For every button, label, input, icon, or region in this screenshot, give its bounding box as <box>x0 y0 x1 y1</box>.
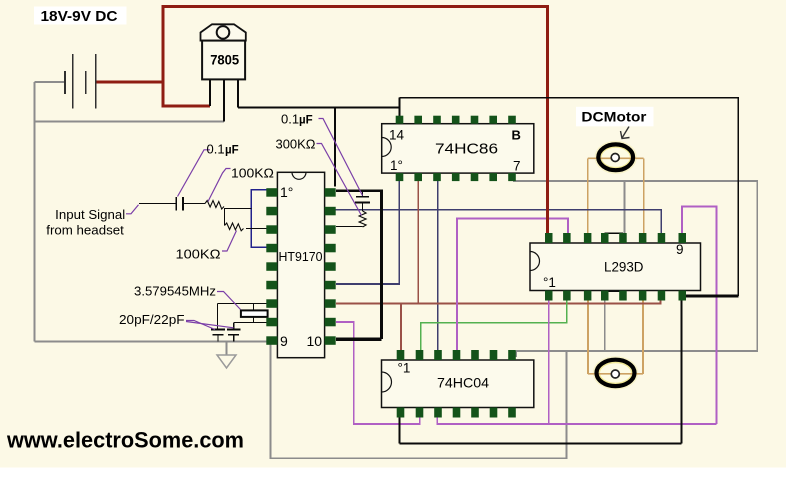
svg-text:7805: 7805 <box>210 52 239 68</box>
svg-text:www.electroSome.com: www.electroSome.com <box>6 428 244 453</box>
svg-text:from headset: from headset <box>46 223 124 237</box>
svg-text:HT9170: HT9170 <box>279 250 323 264</box>
svg-text:µF: µF <box>299 115 313 127</box>
svg-text:100KΩ: 100KΩ <box>231 165 274 180</box>
svg-text:74HC86: 74HC86 <box>435 142 498 158</box>
svg-text:°1: °1 <box>398 361 411 376</box>
svg-text:L293D: L293D <box>604 260 644 275</box>
svg-text:10: 10 <box>307 333 323 349</box>
svg-text:1°: 1° <box>390 158 403 173</box>
svg-text:DCMotor: DCMotor <box>581 109 647 125</box>
svg-text:°1: °1 <box>543 275 556 290</box>
svg-text:100KΩ: 100KΩ <box>176 246 221 261</box>
svg-text:20pF/22pF: 20pF/22pF <box>119 312 185 327</box>
svg-text:µF: µF <box>225 145 239 157</box>
svg-text:9: 9 <box>280 333 288 349</box>
svg-text:18V-9V DC: 18V-9V DC <box>41 9 119 25</box>
svg-text:14: 14 <box>389 128 405 143</box>
svg-text:B: B <box>512 128 521 143</box>
svg-text:0.1: 0.1 <box>207 142 225 157</box>
svg-text:Input Signal: Input Signal <box>55 208 125 222</box>
svg-text:9: 9 <box>676 242 684 257</box>
svg-text:300KΩ: 300KΩ <box>276 137 316 152</box>
svg-text:3.579545MHz: 3.579545MHz <box>134 283 216 298</box>
svg-text:74HC04: 74HC04 <box>437 375 489 391</box>
svg-text:1°: 1° <box>280 184 293 200</box>
svg-text:0.1: 0.1 <box>281 112 299 127</box>
svg-text:7: 7 <box>513 159 521 174</box>
